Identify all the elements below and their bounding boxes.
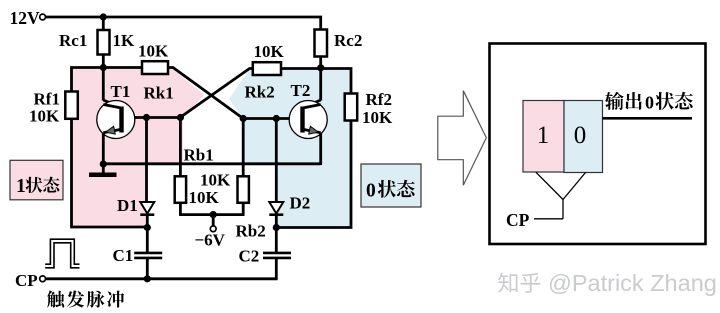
state cell 1 (pink): [523, 101, 564, 173]
wire: C2 bottom to CP line: [275, 259, 278, 279]
junction node at (146.5,117.5): [143, 114, 150, 121]
wire: Rk1 cross-coupling diagonal to T2 base: [168, 68, 243, 119]
svg-text:Rf2: Rf2: [366, 90, 392, 109]
wire: ground stem: [102, 164, 105, 173]
0-state shaded region (blue): [229, 69, 351, 228]
svg-text:1K: 1K: [113, 31, 136, 50]
resistor Rb2 10K: [238, 176, 249, 203]
diode D2: [269, 202, 283, 214]
wire: output line: [603, 117, 693, 120]
svg-text:@Patrick Zhang: @Patrick Zhang: [548, 270, 717, 296]
wire: T2 emitter diagonal: [303, 129, 321, 135]
CP funnel lines: [536, 172, 563, 199]
junction node at (103.3,17): [100, 13, 107, 20]
svg-text:10K: 10K: [254, 42, 285, 61]
svg-text:CP: CP: [15, 271, 38, 290]
svg-text:Rc1: Rc1: [59, 31, 87, 50]
svg-text:10K: 10K: [200, 171, 231, 190]
wire: Rc1 top lead: [102, 17, 105, 31]
svg-text:CP: CP: [506, 210, 530, 230]
capacitor C1: [134, 252, 162, 255]
capacitor C2: [263, 252, 291, 255]
svg-text:10K: 10K: [189, 188, 220, 207]
wire: T1 emitter diagonal: [103, 129, 121, 135]
resistor Rk2 10K: [253, 62, 281, 75]
wire: D1 cathode to C1: [146, 214, 149, 253]
svg-text:Rb1: Rb1: [184, 146, 214, 165]
wire: Rc1 bottom lead: [102, 54, 105, 69]
junction node at (147.3,278.8): [144, 275, 151, 282]
terminal: 12V input: [40, 14, 46, 20]
wire: Rk2 cross-coupling diagonal to T1 base: [180, 69, 253, 118]
wire: Rb2 bottom lead: [242, 203, 245, 215]
svg-text:Rb2: Rb2: [236, 222, 266, 241]
wire: T1 collector vertical: [102, 68, 105, 101]
svg-text:T1: T1: [111, 82, 131, 101]
trigger pulse waveform symbol: [45, 241, 79, 266]
svg-text:10K: 10K: [29, 107, 60, 126]
resistor Rc2: [315, 30, 328, 57]
svg-text:T2: T2: [291, 81, 311, 100]
flip-flop state panel box: [490, 44, 706, 245]
wire: T1 base line: [121, 116, 182, 119]
wire: T2 base line: [243, 117, 304, 120]
block arrow: [438, 91, 487, 186]
wire: C1 bottom to CP line: [146, 259, 149, 279]
ground: [89, 173, 117, 178]
resistor Rk1 10K: [142, 61, 168, 74]
svg-text:D2: D2: [290, 194, 311, 213]
svg-text:Rk2: Rk2: [245, 83, 275, 102]
diode D1: [140, 202, 154, 214]
0-state label box: [361, 164, 421, 207]
svg-text:Rk1: Rk1: [144, 84, 174, 103]
terminal: -6V supply: [210, 226, 216, 232]
junction node at (103.3,164): [100, 160, 107, 167]
svg-text:10K: 10K: [362, 108, 393, 127]
svg-text:0: 0: [574, 122, 587, 149]
wire: blue border right/bottom (Rf2 to D2 cathode node): [276, 119, 351, 228]
junction node at (180.4,117.5): [177, 114, 184, 121]
wire: D2 cathode to blue border node: [275, 214, 278, 228]
svg-text:1: 1: [537, 122, 550, 149]
junction node at (243.2,118.5): [240, 115, 247, 122]
wire: T1 emitter vertical to ground: [102, 132, 105, 165]
resistor Rf2 10K: [345, 94, 358, 121]
svg-text:−6V: −6V: [195, 231, 226, 250]
svg-text:Rc2: Rc2: [334, 31, 362, 50]
resistor Rf1 10K: [65, 92, 78, 119]
wire: +12V top rail: [45, 17, 320, 30]
resistor Rb1 10K: [175, 176, 186, 203]
wire: blue top border (Rk2 to T2 collector node to Rf2): [281, 69, 351, 96]
svg-text:C1: C1: [113, 246, 134, 265]
junction node at (147.3,227.5): [144, 224, 151, 231]
wire: common emitter rail: [102, 162, 321, 165]
svg-text:0: 0: [366, 181, 376, 202]
wire: -6V terminal stem: [212, 215, 215, 226]
svg-text:C2: C2: [239, 247, 260, 266]
wire: pink border loop (T1 collector to Rf1 to D1 cathode node): [72, 68, 148, 228]
transistor T1: [97, 101, 135, 139]
watermark 知乎 @Patrick Zhang: [498, 272, 517, 292]
wire: D2 node to C2 top: [275, 228, 278, 253]
resistor Rc1 1K: [98, 30, 110, 55]
wire: T2 base to Rb2 vertical: [242, 119, 245, 177]
junction node at (276.3,118.5): [273, 115, 280, 122]
wire: T1 collector diagonal: [103, 100, 121, 108]
wire: T2 collector diagonal: [303, 100, 321, 108]
wire: CP trigger line: [45, 277, 277, 280]
svg-text:0: 0: [645, 93, 654, 113]
label 输出0状态 (output 0 state): [605, 92, 624, 110]
junction node at (320.7,67.8): [317, 64, 324, 71]
transistor T2: [289, 101, 327, 139]
state cell 0 (blue): [564, 101, 603, 173]
1-state shaded region (pink): [72, 66, 205, 227]
junction node at (213.2,214.6): [210, 211, 217, 218]
wire: Rb1 bottom lead: [179, 203, 182, 215]
wire: T2 base to D2 anode vertical: [275, 119, 278, 204]
svg-text:10K: 10K: [138, 42, 169, 61]
svg-text:D1: D1: [117, 196, 138, 215]
junction node at (103.3,67.5): [100, 64, 107, 71]
wire: T2 emitter vertical to rail: [319, 132, 322, 165]
wire: T1 base to Rb1 vertical: [179, 118, 182, 177]
wire: Rc2 bottom lead / T2 collector vertical: [319, 57, 322, 101]
label 触发脉冲 (trigger pulse): [47, 290, 64, 307]
junction node at (276.3,227.5): [273, 224, 280, 231]
svg-text:12V: 12V: [10, 8, 41, 28]
1-state label box: [10, 160, 63, 200]
svg-text:1: 1: [16, 176, 26, 197]
wire: -6V bus: [179, 213, 244, 216]
terminal: CP input: [40, 276, 46, 282]
wire: T1 base to D1 anode vertical: [145, 118, 148, 204]
